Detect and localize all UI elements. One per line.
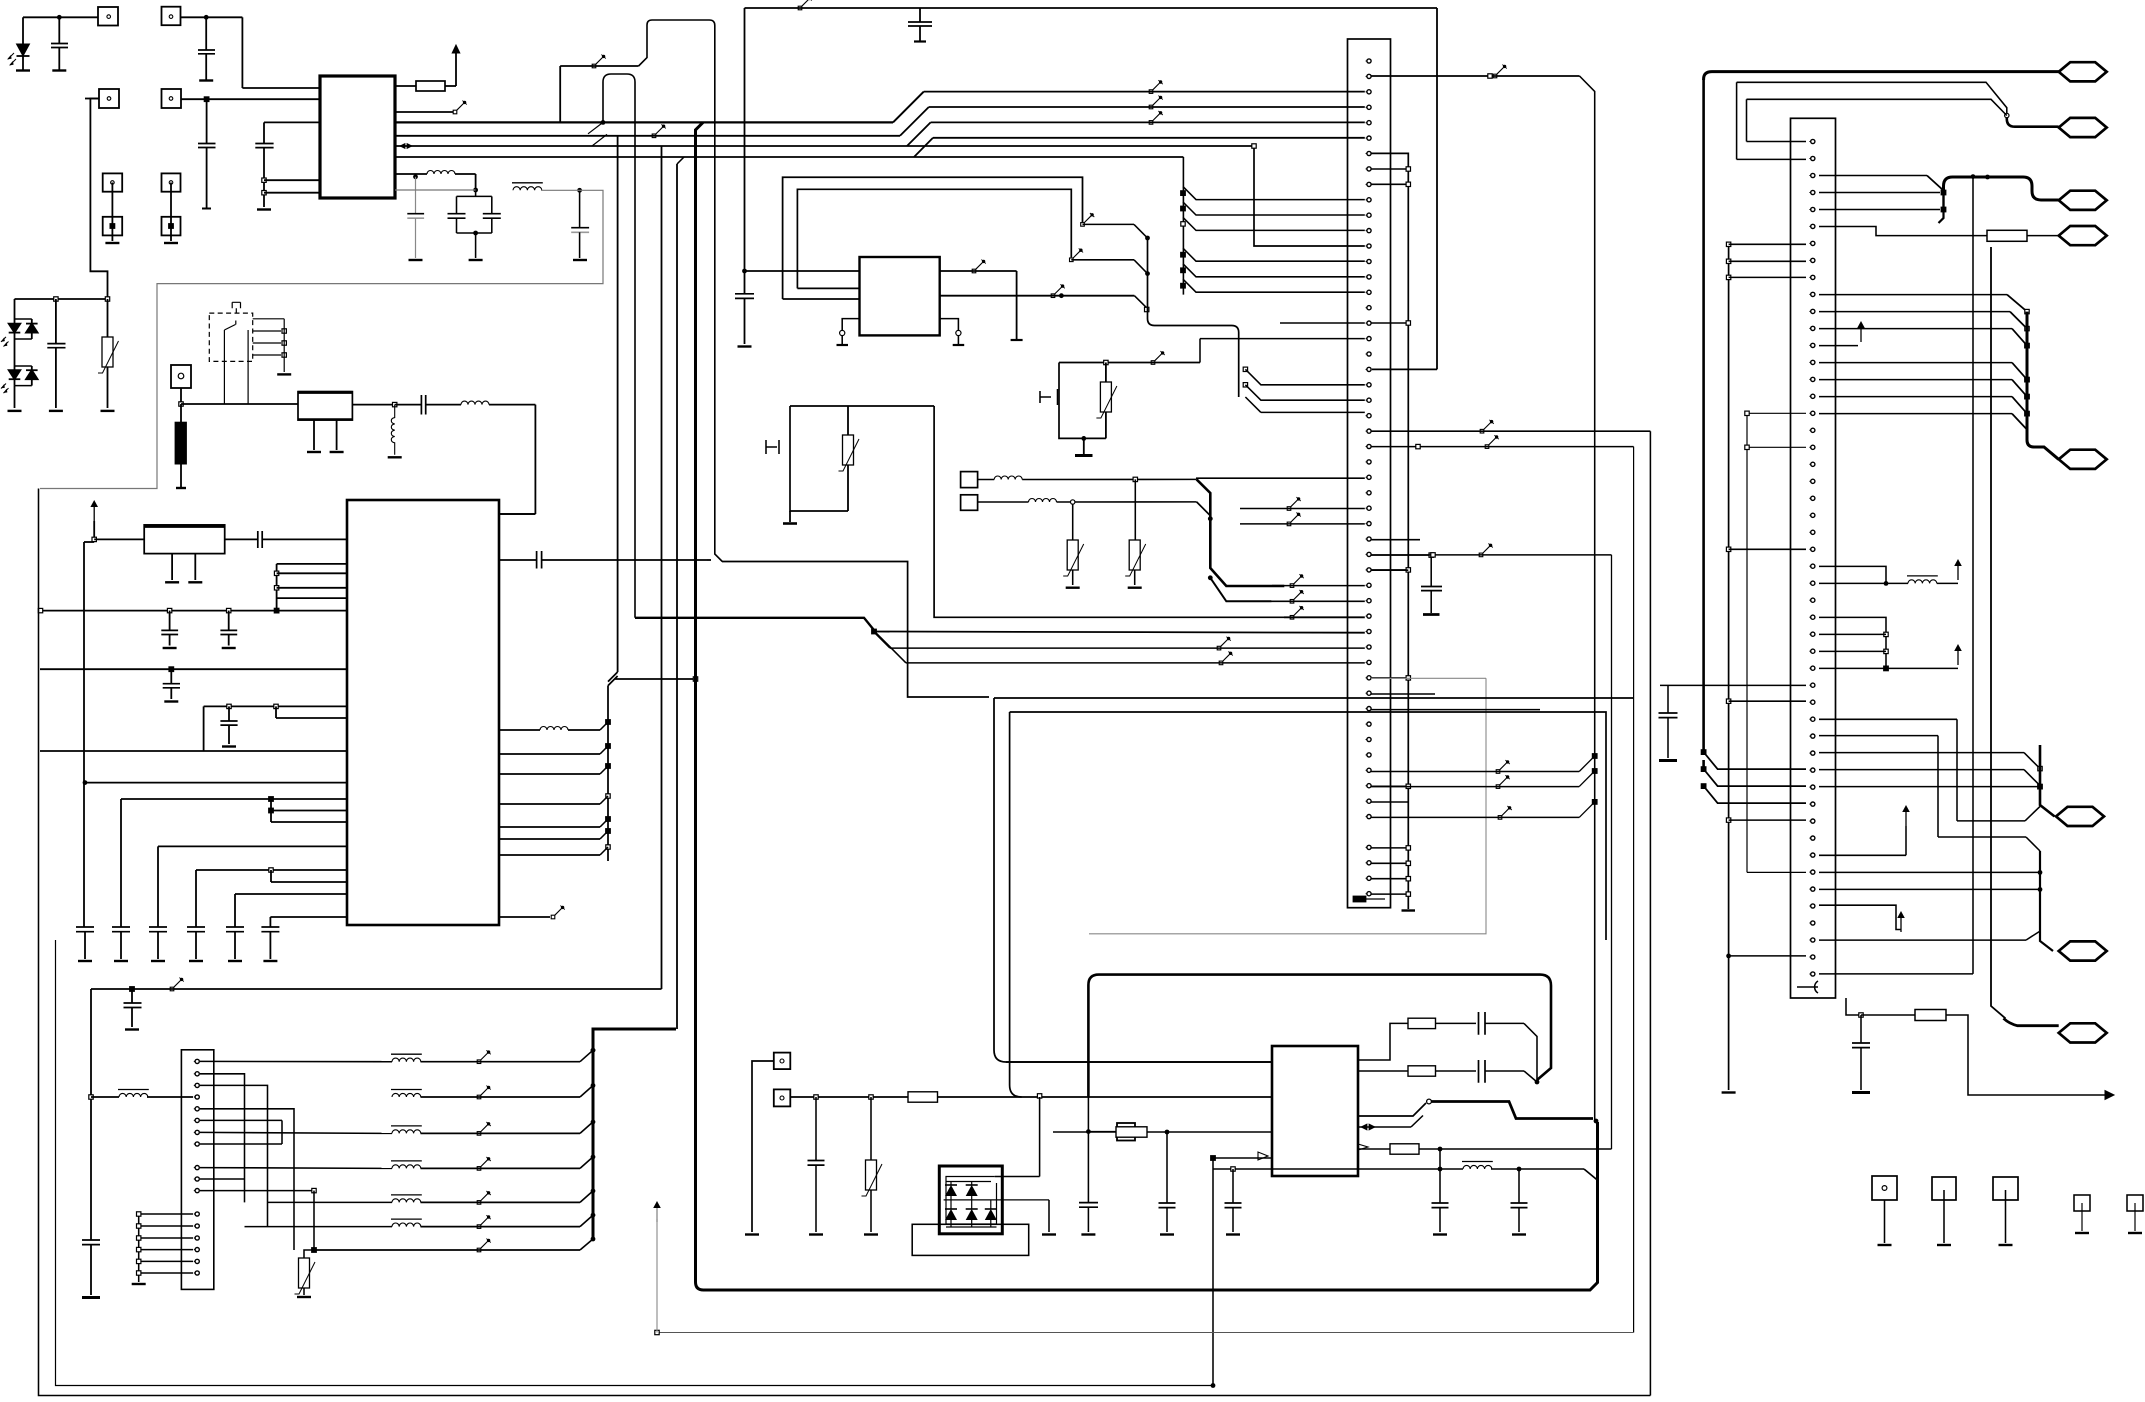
thick net to hexterm X2: [1712, 70, 2059, 73]
node A7 junction: [473, 188, 478, 193]
wire U3 r/c pair 2: [1358, 1070, 1408, 1072]
drop x1650 to border: [1649, 431, 1651, 1395]
wire pin row y917: [270, 916, 347, 918]
M1 bracket right: [940, 319, 959, 330]
node J10 junction: [2025, 394, 2030, 399]
ferrite bead L13: [1462, 1162, 1493, 1170]
LED D4/D5 pair: [14, 339, 16, 366]
wire J10 down-ground: [752, 1061, 774, 1232]
row y694 east: [1371, 693, 1435, 695]
LED D4 arrows: [1, 384, 9, 394]
connector pad J5: [103, 173, 123, 191]
wire to hexterm X3: [2007, 118, 2059, 127]
switch S10: [1290, 606, 1304, 619]
node H12 junction: [1438, 1147, 1443, 1152]
node H3 junction: [1037, 1094, 1041, 1098]
connector pad J9: [171, 365, 191, 388]
connector CN3 body: [1791, 118, 1836, 998]
outer border left-bottom: [39, 489, 1651, 1396]
U2 fan junction nodes: [606, 720, 611, 725]
node G2 junction: [89, 1095, 93, 1099]
rail x1728 junction: [1726, 242, 1730, 246]
wire X1 output: [352, 404, 394, 406]
capacitor C31 series: [1479, 1012, 1486, 1035]
capacitor C6: [456, 196, 458, 213]
node B2 junction: [393, 402, 397, 406]
row y544 net: [1371, 539, 1420, 541]
node E1 junction: [742, 269, 747, 274]
row y817: [1371, 816, 1579, 818]
switch S16: [477, 1191, 491, 1204]
connector pad J12: [1117, 1123, 1135, 1141]
varistor V6: [1072, 504, 1074, 540]
wire pin row y799: [121, 798, 347, 800]
ground for C1: [52, 70, 66, 72]
connector pad J4: [162, 89, 182, 108]
wire pin44 east arrow: [1819, 905, 1901, 929]
ferrite bead L14: [1907, 576, 1938, 584]
capacitor C7: [491, 196, 493, 213]
node J18 junction: [1701, 784, 1706, 789]
hexterm X9: [2059, 941, 2107, 960]
capacitor C14: [170, 669, 172, 684]
capacitor C20 + riser: [269, 917, 271, 927]
switch S5: [798, 0, 812, 10]
thick bus up-right to X4: [1944, 177, 2059, 200]
Y1 leg2: [194, 554, 196, 580]
capacitor C2: [205, 17, 207, 49]
node C7 junction: [274, 608, 279, 613]
wire J7-J8 and ground: [170, 183, 172, 242]
gray riser with arrow: [656, 1219, 658, 1333]
hexterm X3: [2059, 118, 2107, 137]
rail x1728 junction: [1726, 699, 1730, 703]
CN1 key mark: [1354, 897, 1366, 902]
wire pin26: [1819, 582, 1886, 584]
CN2 lower pins bus: [138, 1214, 140, 1282]
wire crystal net: [84, 541, 94, 543]
row 6 wire mid: [421, 1226, 581, 1228]
wire R1 up / arrow: [455, 51, 457, 86]
diode D4: [950, 1200, 952, 1209]
wire CN2 pin west: [139, 1225, 193, 1227]
wire row pin26 east: [1371, 446, 1634, 448]
ground twin caps: [469, 259, 483, 261]
wire IC U2 pin row d: [277, 597, 347, 599]
connector pad J6: [103, 217, 123, 236]
wire collector x1147: [1148, 238, 1239, 397]
capacitor C4: [263, 122, 265, 143]
row 3 slant to bus: [580, 1122, 593, 1134]
wire CN3 pin49b: [1729, 955, 1806, 957]
cascade junction: [1181, 191, 1186, 196]
rail x1703 bottom junctions: [1701, 750, 1706, 755]
switch S11: [170, 978, 184, 991]
relay K1 actuator: [232, 302, 240, 313]
slant rail to pin39: [1704, 786, 1806, 803]
wire U2 right fan bus: [608, 676, 696, 861]
wire pin row y718: [275, 706, 277, 718]
node K1 junction: [1133, 477, 1137, 481]
LED D1 emission arrows: [8, 53, 16, 65]
wire J2 to IC U1: [181, 16, 243, 18]
connector pad J14: [1932, 1177, 1956, 1200]
node J8 junction: [2025, 343, 2030, 348]
diode D2: [950, 1182, 952, 1186]
node K2 junction: [1071, 500, 1075, 504]
wire y555 left piece: [707, 559, 711, 561]
node E5 junction: [1081, 436, 1086, 441]
wire VCC rail y610: [40, 610, 347, 612]
connector pad J11: [774, 1089, 791, 1106]
row 5 wire west: [268, 1201, 393, 1203]
loop top rails east: [994, 697, 1634, 699]
capacitor C5 (gray): [415, 177, 417, 214]
row 6 wire west: [245, 1226, 393, 1228]
capacitor C37: [55, 299, 57, 344]
bus x593 node top: [591, 1048, 596, 1053]
slant rail to pin38: [1704, 769, 1806, 786]
ferrite bead L11: [391, 1195, 422, 1203]
row 1 slant to bus: [580, 1050, 593, 1062]
node E2 junction switch: [1081, 213, 1095, 226]
bus x635 bend to east: [635, 618, 874, 630]
BR1 inner outline: [946, 1177, 997, 1225]
wire pin34 jog net: [1819, 718, 1957, 720]
rail x91 down: [90, 989, 92, 1240]
ferrite bead L7: [391, 1054, 422, 1062]
switch S2: [652, 124, 666, 137]
wire CN3 pin44 west: [1747, 871, 1806, 873]
CN1 bus stub junction: [1371, 322, 1408, 324]
rail x1728 junction: [1726, 259, 1730, 263]
node A1 junction: [57, 15, 62, 20]
node C2 junction: [274, 571, 278, 575]
wire pin4 east: [1819, 192, 1940, 194]
wire pin32 west cap: [1660, 684, 1806, 686]
loop G2 right side to row: [934, 406, 1284, 617]
node J12 junction: [1726, 954, 1731, 959]
hexterm X5: [2059, 226, 2107, 245]
row 5 wire mid: [421, 1201, 581, 1203]
wire U3 y1158: [1213, 1157, 1272, 1159]
double arrow marker: [400, 144, 412, 149]
capacitor C24: [1430, 555, 1432, 586]
node J22 junction: [1859, 1013, 1863, 1017]
wire net W1 (U1 to CN1 pin3): [395, 121, 893, 123]
X1 leg 2: [336, 420, 338, 450]
node J1 junction: [2005, 113, 2009, 117]
capacitor C22: [919, 8, 921, 22]
wire L1 corner down: [475, 174, 477, 190]
wire pin5 east: [1819, 209, 1940, 211]
switch S17: [477, 1215, 491, 1228]
node J21 junction: [2038, 784, 2043, 789]
capacitor C34: [1518, 1169, 1520, 1203]
wire pin7 to row3: [200, 1132, 392, 1133]
node J11 junction: [2025, 411, 2030, 416]
node C12 junction: [269, 797, 274, 802]
capacitor C35: [1667, 685, 1669, 713]
connector pad J15: [1993, 1177, 2018, 1200]
wire C4 to IC pin: [264, 121, 320, 123]
wire node A4 to IC: [264, 179, 320, 181]
thick rail x1703: [1702, 79, 1705, 752]
wire J3 left: [85, 98, 99, 100]
wire pin25 jog: [1819, 566, 1886, 583]
wire row pin25 east: [1371, 430, 1650, 432]
row y709 east: [1371, 709, 1540, 711]
node J3 junction: [1941, 207, 1946, 212]
wire CN3 pin50 net: [1846, 998, 1859, 1015]
long rail x1973: [1972, 177, 1974, 974]
rows y771-817 east switches: [1371, 771, 1579, 773]
capacitor C18 + riser: [195, 870, 197, 927]
capacitor C9 series: [395, 404, 422, 406]
capacitor C16 + riser: [120, 799, 122, 927]
bridge rectifier BR1 body: [939, 1166, 1002, 1234]
node J6 junction: [2025, 309, 2029, 313]
inner loop wire: [797, 189, 1071, 288]
row 1 wire mid: [421, 1061, 581, 1063]
spark gap G2: [766, 440, 779, 454]
CN1 bus stub junction: [1371, 893, 1408, 895]
wire pad J18 east: [1022, 478, 1196, 480]
inductor L1: [395, 173, 427, 175]
power arrow node: [90, 500, 98, 521]
wire pin36 east: [1819, 752, 2024, 754]
double arrow marker 2: [1361, 1124, 1375, 1130]
relay contact stub 2: [253, 330, 281, 332]
resistor R3 net y1132: [1053, 1131, 1116, 1133]
relay K1 common leg: [247, 330, 249, 404]
node A5 junction: [262, 191, 266, 195]
bus junction: [591, 1083, 596, 1088]
LED cluster top rail: [15, 298, 108, 300]
capacitor C11 (rail bottom): [76, 927, 94, 932]
inductor L3 vertical: [391, 405, 394, 455]
hex feed wire 2: [1737, 82, 2007, 118]
resistor R5: [1408, 1066, 1436, 1076]
node J19 junction: [2038, 766, 2042, 770]
node I1 junction: [655, 1330, 659, 1334]
node J20 junction: [2038, 783, 2043, 788]
wire pin17 east: [1819, 413, 2012, 415]
wire loop leg to cap: [1087, 1097, 1089, 1132]
inductor L4: [461, 401, 489, 405]
vert x1746 to CN3 pin1: [1746, 99, 1748, 141]
wire pin13 arrow: [1819, 345, 1858, 347]
wire U3 thick bus out: [1358, 1103, 1426, 1116]
wire pin42 east arrow: [1819, 854, 1906, 856]
wire pin11 to varistor net: [200, 1190, 314, 1192]
bus junction: [591, 1048, 596, 1053]
connector pad J18: [961, 472, 978, 488]
node LED2 junction: [105, 297, 109, 301]
battery BT1: [176, 423, 187, 464]
node C5 junction: [167, 608, 171, 612]
wire IC U2 pin row a: [277, 563, 347, 565]
LED D2 arrows: [1, 337, 9, 347]
IC U2: [347, 500, 499, 925]
wire J4 to IC U1: [181, 98, 320, 100]
row 5 slant to bus: [580, 1191, 593, 1203]
capacitor C1: [58, 17, 60, 43]
node C11 junction: [83, 780, 88, 785]
thick drop x1210: [1197, 479, 1285, 586]
inductor L5: [499, 729, 540, 731]
row y663: [1220, 662, 1365, 664]
capacitor C21 series: [499, 559, 537, 561]
clock mark U3 right: [1358, 1144, 1368, 1150]
diode D3: [971, 1182, 973, 1186]
vert x1736 to CN3 pin2: [1736, 82, 1738, 159]
spark gap G1: [1040, 389, 1058, 405]
gray net wire: [40, 190, 603, 488]
slant rail to pin37: [1704, 752, 1806, 769]
capacitor C36: [1860, 1015, 1862, 1043]
wire pin6 stub: [200, 1119, 282, 1121]
wire L6 to CN2 pin4: [91, 1096, 119, 1098]
row y554 net east: [1371, 554, 1612, 556]
node A4 junction: [262, 178, 266, 182]
row 6 slant to bus: [580, 1215, 593, 1227]
wire node A5 to IC: [264, 192, 320, 194]
wire row to CN1 pin y632: [874, 632, 1365, 633]
wire U2 fan w3: [499, 773, 600, 775]
relay contact stub 3: [253, 342, 281, 344]
row 3 wire west: [391, 1132, 393, 1134]
wire to pad J12: [1088, 1131, 1117, 1133]
wire to module M1 a: [745, 270, 860, 272]
node H10 junction: [1427, 1099, 1432, 1104]
node G1 junction: [130, 987, 135, 992]
connector pad J7: [162, 173, 181, 191]
twin cap loop rails: [457, 190, 492, 258]
node A8 junction: [473, 231, 478, 236]
capacitor C30: [1232, 1169, 1234, 1203]
wire spark-gap feed: [1059, 362, 1200, 364]
connector pad J8: [162, 217, 181, 236]
inductor L16: [1029, 499, 1057, 503]
node H5 junction: [1535, 1080, 1540, 1085]
node E3 junction switch: [1070, 248, 1084, 261]
ground for LED D1: [16, 70, 30, 72]
ground G1: [1083, 438, 1085, 454]
ground rail x1728: [1722, 1092, 1736, 1094]
wire pin row y894: [235, 893, 347, 895]
row 4 wire mid: [421, 1167, 581, 1169]
bus line x695 thick: [696, 122, 1598, 1290]
wire pad feed 2: [1197, 502, 1211, 516]
ferrite bead L9: [391, 1126, 422, 1134]
relay K1 dashed box: [209, 313, 252, 361]
BR1 top rail: [946, 1181, 991, 1183]
CN1 bus stub junction: [1371, 569, 1408, 571]
node C4 junction: [38, 608, 42, 612]
node C14 junction: [269, 868, 273, 872]
rail x1728: [1728, 244, 1730, 1090]
wire U2 fan w7: [499, 854, 600, 856]
node B1 junction: [179, 402, 183, 406]
wire bead east jog: [1491, 1168, 1584, 1170]
node H13 junction: [1438, 1167, 1443, 1172]
outer loop wire: [783, 177, 1083, 299]
capacitor C33: [1439, 1169, 1441, 1203]
Y1 leg1: [171, 554, 173, 580]
connector CN2 pins: [194, 1059, 200, 1063]
connector pad J13: [1872, 1176, 1897, 1200]
row y802 stub: [1371, 801, 1408, 803]
node H1 junction: [814, 1095, 818, 1099]
node C3 junction: [274, 586, 278, 590]
connector CN3 pins: [1809, 139, 1815, 143]
wire M1 out 2: [940, 295, 1135, 297]
wire J3 riser with jog: [90, 99, 107, 300]
wire pin row y822: [270, 811, 272, 823]
wire rail y669: [40, 668, 347, 670]
cascade junction: [1181, 252, 1186, 257]
node H2 junction: [869, 1095, 873, 1099]
node H11 junction: [1594, 1119, 1599, 1124]
wire net y989: [91, 988, 662, 990]
CN1 bus cap net: [1371, 554, 1431, 556]
vertical rail x84: [83, 542, 85, 927]
node A9 junction: [577, 188, 582, 193]
wire U3 left y1062: [1006, 1061, 1272, 1063]
row 7 wire: [314, 1249, 580, 1251]
wire CN2 pin west: [139, 1213, 193, 1215]
node F1 junction: [1208, 516, 1213, 521]
capacitor C25: [131, 989, 133, 1003]
node J9 junction: [2025, 377, 2030, 382]
node F2 junction: [1208, 575, 1213, 580]
hexterm X6: [2056, 807, 2104, 826]
wire pin14 east: [1819, 362, 2012, 364]
node C1 junction: [92, 537, 96, 541]
arrow up 1: [1954, 559, 1962, 580]
node J15: [1884, 649, 1888, 653]
wire U2 fan w2: [499, 753, 600, 755]
wire pin15 east: [1819, 379, 2012, 381]
wire pin10 stub: [200, 1178, 245, 1180]
wire row pin18: [1280, 322, 1365, 324]
CN1 bus stub junction: [1371, 785, 1408, 787]
capacitor C29: [1166, 1132, 1168, 1203]
wire L4 to IC U2: [489, 404, 535, 406]
switch S12: [477, 1050, 491, 1063]
connector pad J17: [2127, 1195, 2143, 1211]
hexterm X8: [2059, 450, 2107, 469]
wire U3 y1149 resistor R6: [1358, 1148, 1390, 1150]
node J16: [1884, 666, 1889, 671]
ground G2: [789, 511, 791, 522]
clock mark U3 left: [1258, 1152, 1268, 1160]
wire pin16 east: [1819, 396, 2012, 398]
capacitor C19 + riser: [234, 894, 236, 927]
capacitor C3: [206, 99, 208, 143]
BR1 ground leg: [1048, 1200, 1050, 1232]
wire CN3 pin16 west: [1747, 412, 1806, 414]
varistor V3: [304, 1250, 314, 1258]
thick drop slant 2: [1210, 578, 1271, 602]
wire row pin19 (y338): [1200, 338, 1365, 340]
wire U2 fan w6: [499, 838, 600, 840]
bus X9: [2040, 851, 2053, 951]
wire pin3 via x267: [200, 1085, 268, 1226]
wire CN2 pin west: [139, 1272, 193, 1274]
drop x1213 to border: [1212, 1158, 1214, 1386]
